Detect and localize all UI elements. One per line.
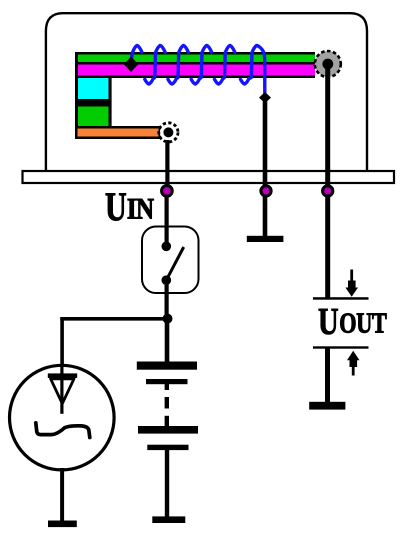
- battery plate 2 (short): [146, 379, 188, 384]
- battery plate 3 (long): [138, 426, 198, 434]
- terminal dot middle: [261, 186, 271, 196]
- spark gap upper electrode line: [313, 297, 369, 300]
- battery plate 4 (short): [147, 445, 188, 450]
- core green bar: [78, 55, 315, 63]
- generator G circle: [10, 365, 115, 470]
- node: junction dot at battery top: [163, 314, 173, 324]
- terminal dot HV: [323, 186, 333, 196]
- ground bar (middle terminal): [247, 236, 284, 242]
- dimension arrow up: [347, 351, 360, 376]
- svg-text:U: U: [318, 301, 339, 343]
- wire: Uin terminal to switch top contact: [165, 192, 169, 247]
- wire: down to generator: [60, 317, 64, 367]
- terminal dot Uin: [162, 186, 173, 197]
- ignition coil housing: [46, 13, 367, 172]
- AC squiggle: [36, 423, 90, 438]
- wire: junction down to battery: [165, 318, 170, 362]
- mounting plate: [23, 171, 395, 183]
- wire: coil end junction down to middle terminal and ground bar: [263, 101, 268, 238]
- node: coil end junction diamond: [259, 92, 271, 103]
- orange bar outline: [75, 126, 161, 139]
- label U_IN: [105, 184, 154, 229]
- wire: horizontal from generator to junction node: [60, 317, 169, 321]
- svg-text:IN: IN: [127, 192, 154, 224]
- breaker switch S body: [142, 227, 199, 294]
- wire: generator to ground: [60, 468, 64, 521]
- ground bar (output): [309, 402, 345, 410]
- core top bar (black outline): [75, 52, 315, 78]
- wire: switch bottom contact down to junction: [165, 280, 169, 319]
- ground bar (generator): [48, 521, 77, 528]
- battery GB plate 1 (long): [137, 362, 197, 370]
- ground bar (battery): [152, 516, 185, 523]
- primary terminal (bullseye): [159, 123, 178, 142]
- diode triangle: [51, 379, 74, 404]
- green block: [78, 107, 109, 127]
- HV output terminal (gray): [315, 51, 341, 77]
- dimension arrow down: [345, 270, 358, 297]
- switch bottom contact: [162, 275, 172, 285]
- battery dashed link: [165, 384, 169, 390]
- diode cathode bar: [48, 373, 77, 378]
- label U_OUT: [318, 301, 387, 343]
- left core limb outline: [75, 78, 112, 128]
- svg-text:OUT: OUT: [339, 307, 387, 339]
- switch top contact: [162, 242, 172, 252]
- wire: bullseye terminal down to Uin terminal: [165, 140, 169, 192]
- orange bar: [78, 129, 159, 137]
- secondary winding magenta bar: [78, 65, 315, 76]
- svg-text:U: U: [105, 184, 127, 229]
- wire: battery to ground: [165, 450, 169, 518]
- cyan block: [78, 78, 109, 99]
- primary winding L1 (blue coil): [131, 45, 265, 93]
- wire: lower electrode to ground: [325, 348, 330, 403]
- diode anode line: [60, 365, 63, 414]
- node: coil tap diamond on core bar: [124, 57, 139, 73]
- spark gap lower electrode line: [313, 346, 369, 348]
- switch lever: [166, 247, 183, 280]
- wire: HV terminal down to spark gap: [325, 64, 330, 298]
